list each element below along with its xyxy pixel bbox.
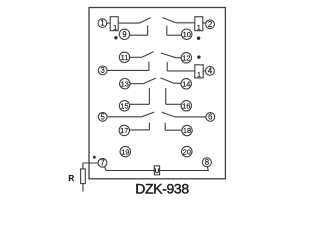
svg-text:1: 1	[197, 23, 201, 32]
node 19	[120, 146, 130, 156]
svg-text:9: 9	[122, 30, 126, 39]
svg-text:6: 6	[208, 113, 212, 122]
asterisk near terminal 7	[93, 156, 96, 159]
terminal 2	[206, 20, 215, 29]
contact K6 fixed terminal vertical	[165, 88, 167, 104]
resistor 4 (box at terminal 4)	[195, 65, 203, 78]
node 15	[119, 101, 129, 111]
svg-text:1: 1	[113, 23, 117, 32]
svg-text:12: 12	[182, 54, 190, 63]
wire node18 to contact K8	[165, 129, 181, 131]
svg-text:14: 14	[182, 80, 190, 89]
contact K2 blade (2-10)	[163, 18, 176, 23]
svg-text:19: 19	[121, 147, 129, 156]
svg-text:DZK-938: DZK-938	[135, 181, 189, 197]
node 11	[119, 52, 129, 62]
contact K6 blade (14-16)	[161, 78, 174, 83]
svg-text:10: 10	[183, 30, 191, 39]
wire node14 to contact K6 pivot	[174, 82, 182, 84]
node 10	[182, 29, 192, 39]
contact K3 blade (11-3)	[142, 52, 154, 58]
wire terminal1 to resistor box	[107, 22, 110, 24]
contact K4 blade (12-4)	[161, 53, 176, 58]
contact K8 blade (6-18)	[162, 112, 175, 117]
contact K3 fixed terminal vertical	[148, 62, 150, 71]
terminal 5	[98, 112, 107, 121]
wire node11 to contact K3 pivot	[130, 56, 142, 58]
wire node12 to contact K4 pivot	[176, 57, 181, 59]
wire node17 to contact K7	[130, 129, 150, 131]
svg-text:U: U	[155, 168, 160, 175]
svg-text:17: 17	[120, 126, 128, 135]
svg-text:18: 18	[183, 126, 191, 135]
terminal circles	[98, 19, 215, 168]
contact K1 blade (1-9)	[140, 18, 151, 24]
contact K2 fixed terminal vertical	[166, 26, 168, 36]
resistor 2 (box at terminal 2)	[195, 17, 203, 31]
node 14	[181, 79, 191, 89]
svg-text:4: 4	[208, 67, 213, 76]
node 18	[182, 125, 192, 135]
contact K8 fixed terminal vertical	[164, 123, 166, 131]
terminal 4	[206, 67, 215, 76]
contact K5 blade (13-15)	[143, 78, 156, 84]
wire terminal3 to contact K3	[107, 69, 149, 71]
dot near node 12	[197, 55, 200, 58]
wire terminal7 down to coil line	[104, 167, 154, 171]
contact K5 fixed terminal vertical	[148, 88, 150, 104]
node 16	[181, 101, 191, 111]
wire node16 to contact K6	[166, 103, 182, 105]
terminal 1	[98, 19, 107, 28]
svg-text:20: 20	[183, 147, 191, 156]
wire node9 to contact K1	[129, 34, 147, 36]
wire terminal7 to resistor R	[83, 163, 98, 169]
node 12	[181, 53, 191, 63]
wire resistor4 to terminal 4	[203, 70, 206, 72]
svg-text:11: 11	[121, 53, 129, 62]
contact K7 fixed terminal vertical	[148, 123, 150, 130]
contact K7 blade (5-17)	[142, 112, 154, 117]
svg-text:8: 8	[205, 158, 209, 167]
wire node15 to contact K5	[130, 103, 150, 105]
dot near node 10	[197, 37, 200, 40]
wire contact K2 pivot to resistor 2	[176, 22, 195, 24]
terminal 7	[98, 158, 107, 167]
polarity dots	[93, 36, 201, 159]
svg-text:1: 1	[197, 70, 201, 79]
wire coil U to terminal 8	[160, 167, 209, 171]
node 9	[119, 29, 129, 39]
resistor R bottom lead	[82, 184, 84, 192]
node 20	[182, 146, 192, 156]
wire contact K8 pivot to terminal 6	[175, 116, 206, 118]
wire resistor to contact K1 pivot	[118, 22, 139, 24]
contact K1 fixed terminal vertical	[147, 26, 149, 36]
wire resistor2 to terminal 2	[203, 22, 207, 25]
resistor R body	[81, 169, 86, 184]
node 13	[120, 79, 130, 89]
wire node13 to contact K5 pivot	[130, 83, 143, 85]
relay case outline	[89, 8, 225, 179]
resistor 1 (box at terminal 1)	[110, 17, 118, 31]
dot near node 9	[114, 36, 117, 39]
coil U box	[154, 166, 159, 175]
svg-text:R: R	[68, 174, 74, 183]
wire terminal5 to contact K7 pivot	[107, 116, 142, 118]
svg-text:16: 16	[182, 102, 190, 111]
wire node10 to contact K2	[167, 34, 182, 36]
terminal 8	[202, 158, 211, 167]
svg-text:7: 7	[100, 158, 104, 167]
node 17	[119, 125, 129, 135]
svg-text:2: 2	[208, 20, 212, 29]
svg-text:1: 1	[100, 19, 104, 28]
contact K4 fixed terminal vertical	[166, 62, 168, 71]
svg-text:3: 3	[101, 66, 105, 75]
terminal 3	[98, 66, 107, 75]
svg-text:13: 13	[121, 79, 129, 88]
wire contact K4 to resistor 4	[167, 70, 195, 72]
terminal 6	[206, 113, 215, 122]
svg-text:15: 15	[120, 102, 128, 111]
svg-text:5: 5	[101, 112, 106, 121]
